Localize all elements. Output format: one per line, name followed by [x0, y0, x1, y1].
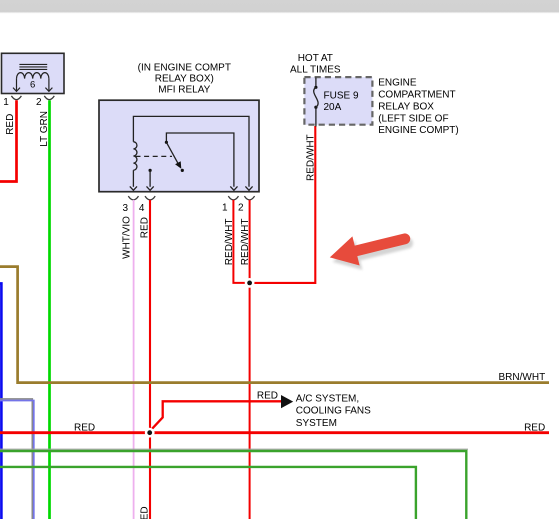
- relay coil lead to pin 3: [132, 170, 134, 187]
- coil lead pin 2 with arrow: [48, 79, 50, 91]
- pin 3 arrowhead: [130, 186, 137, 190]
- wire WHT/VIO from pin 3 to bottom: [133, 200, 135, 519]
- svg-text:RED: RED: [524, 423, 545, 434]
- fuse element S-curve: [314, 87, 318, 107]
- dashed actuation line: [136, 155, 173, 157]
- arrowhead to A/C system: [281, 395, 293, 408]
- switch throw contact dot: [181, 169, 184, 172]
- coil winding 6: [17, 73, 49, 79]
- fuse box F9 (dashed): [304, 77, 372, 125]
- relay coil circuit wire to pin 2: [133, 116, 249, 186]
- coil lead pin 1 with arrow: [16, 79, 18, 91]
- svg-text:COMPARTMENT: COMPARTMENT: [378, 90, 455, 101]
- svg-text:RELAY BOX): RELAY BOX): [155, 73, 214, 84]
- svg-text:RED: RED: [257, 390, 278, 401]
- svg-text:RED/WHT: RED/WHT: [224, 219, 235, 266]
- svg-text:RED/WHT: RED/WHT: [305, 134, 316, 181]
- wire RED bus horizontal: [0, 431, 549, 434]
- component box C6 (coil component, partially cut at left): [2, 53, 65, 93]
- wire RED from pin 4 to bottom: [149, 200, 151, 519]
- svg-text:1: 1: [3, 97, 9, 108]
- pin 2 connector arc: [44, 96, 54, 100]
- svg-text:(IN ENGINE COMPT: (IN ENGINE COMPT: [138, 62, 231, 73]
- svg-text:4: 4: [139, 203, 145, 214]
- wire GRN B horizontal then down: [0, 467, 416, 519]
- svg-text:3: 3: [122, 203, 128, 214]
- fuse lead bottom: [315, 107, 317, 126]
- pin 1 connector arc: [11, 96, 21, 100]
- svg-text:RELAY BOX: RELAY BOX: [378, 101, 434, 112]
- svg-text:COOLING FANS: COOLING FANS: [296, 406, 371, 417]
- svg-text:RED/WHT: RED/WHT: [240, 219, 251, 266]
- wire RED from pin 1 down then left to edge: [0, 100, 17, 181]
- pin 1 arrowhead: [230, 186, 237, 190]
- fuse element dots: [314, 86, 317, 89]
- svg-text:MFI RELAY: MFI RELAY: [158, 84, 210, 95]
- svg-text:FUSE 9: FUSE 9: [324, 91, 359, 102]
- svg-text:(LEFT SIDE OF: (LEFT SIDE OF: [378, 113, 448, 124]
- annotation red arrow: [326, 223, 413, 272]
- wire RED/WHT from fuse down and left to junction: [248, 126, 315, 283]
- fuse lead top: [315, 78, 317, 88]
- pin 4 connector arc: [145, 196, 155, 200]
- switch pivot dot: [165, 141, 168, 144]
- svg-text:RED: RED: [139, 506, 150, 519]
- svg-text:WHT/VIO: WHT/VIO: [121, 216, 132, 259]
- svg-text:BRN/WHT: BRN/WHT: [499, 372, 546, 383]
- annotation arrow shadow: [329, 227, 416, 276]
- svg-text:ENGINE COMPT): ENGINE COMPT): [378, 125, 459, 136]
- svg-text:ALL TIMES: ALL TIMES: [290, 65, 341, 76]
- MFI relay box: [99, 100, 259, 192]
- pin 1 connector arc: [228, 196, 238, 200]
- wire GRN A horizontal then down: [0, 451, 466, 519]
- svg-text:ENGINE: ENGINE: [378, 78, 417, 89]
- svg-text:1: 1: [222, 202, 228, 213]
- pin 4 arrowhead: [147, 186, 154, 190]
- switch blade with arrowhead: [166, 142, 178, 163]
- core lines of coil 6: [19, 64, 47, 69]
- relay coil winding: [133, 142, 137, 170]
- svg-text:A/C SYSTEM,: A/C SYSTEM,: [296, 394, 359, 405]
- svg-text:SYSTEM: SYSTEM: [296, 418, 337, 429]
- svg-text:RED: RED: [140, 217, 151, 238]
- svg-text:6: 6: [30, 79, 35, 90]
- pin 2 connector arc: [244, 196, 254, 200]
- pin 2 arrowhead: [245, 186, 252, 190]
- pin 3 connector arc: [128, 196, 138, 200]
- wire RED/WHT from pin 2 down to bottom: [249, 200, 251, 519]
- junction dot RED bus (with white halo): [145, 428, 155, 438]
- svg-text:2: 2: [36, 97, 42, 108]
- wire BRN/WHT from left edge down and across: [0, 267, 549, 383]
- svg-text:20A: 20A: [324, 102, 342, 113]
- svg-text:RED: RED: [74, 423, 95, 434]
- junction dot RED/WHT (with white halo): [245, 278, 255, 288]
- wire BLU from left edge down to bottom: [0, 283, 1, 519]
- svg-text:RED: RED: [5, 114, 16, 135]
- svg-text:HOT AT: HOT AT: [298, 53, 333, 64]
- branch wire RED to A/C system: [150, 401, 281, 431]
- wire RED/WHT from pin 1 down to junction: [233, 200, 249, 283]
- wire LT GRN from pin 2 down to bottom: [48, 100, 51, 519]
- wire GRN A shadow: [0, 448, 468, 450]
- svg-text:LT GRN: LT GRN: [39, 111, 50, 147]
- switch common wire to pin 1: [166, 133, 234, 187]
- pin 4 stub with dot: [149, 169, 152, 172]
- svg-text:2: 2: [238, 202, 244, 213]
- wire GRY/VIO from left edge down to bottom (two-tone): [0, 399, 32, 519]
